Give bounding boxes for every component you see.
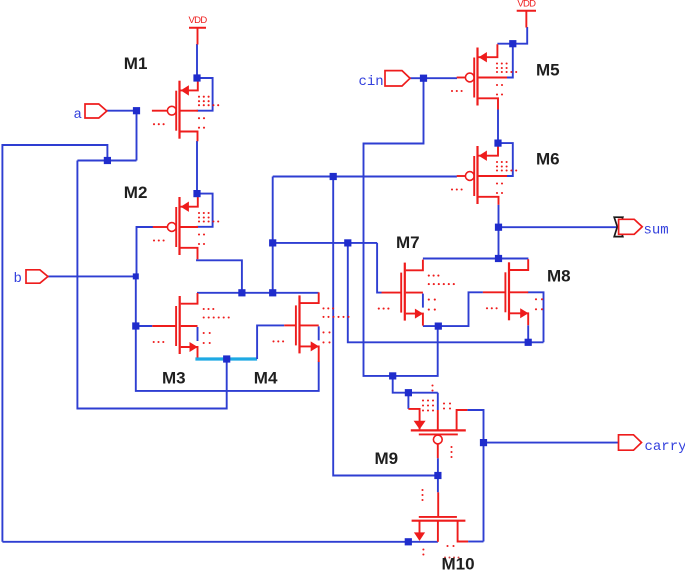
transistor M8 source arrow bbox=[520, 308, 528, 318]
wire M4 gate riser bbox=[257, 325, 284, 359]
transistor M3 source lead bbox=[181, 347, 198, 358]
transistor M7 channel bar bbox=[404, 263, 406, 321]
wire M1 bulk tie loop bbox=[197, 78, 213, 111]
node junction at 347.8,242.9 bbox=[344, 239, 351, 246]
wire M6 source to sum node bbox=[498, 205, 500, 259]
transistor M10 gate lead bbox=[437, 492, 439, 517]
port a symbol bbox=[85, 104, 107, 118]
node junction at 498.5,258.5 bbox=[495, 255, 502, 262]
transistor M8 bulk lead bbox=[510, 291, 528, 293]
node junction at 498,143.1 bbox=[494, 140, 501, 147]
wire M2 gate to node B bbox=[137, 227, 154, 276]
transistor M3 drain lead bbox=[181, 293, 198, 304]
wire M10 drain to carry drop bbox=[468, 541, 483, 543]
transistor M5 parameter dots bbox=[496, 62, 498, 64]
transistor M10 gate bar bbox=[419, 516, 457, 518]
svg-text:a: a bbox=[74, 107, 82, 123]
node junction at 408.4,392.7 bbox=[405, 389, 412, 396]
transistor M7 gate lead bbox=[382, 292, 402, 294]
transistor M5 gate bar bbox=[473, 58, 475, 98]
transistor M4 gate bar bbox=[295, 305, 297, 345]
svg-text:cin: cin bbox=[359, 74, 384, 90]
svg-text:VDD: VDD bbox=[189, 15, 208, 26]
transistor M1 source arrow bbox=[181, 85, 189, 95]
transistor M1 gate lead bbox=[152, 110, 168, 112]
port sum symbol bbox=[619, 219, 643, 234]
transistor M1 source lead bbox=[181, 132, 198, 142]
wire VDD2 to M5 drain rail bbox=[497, 27, 527, 44]
transistor M6 parameter dots bbox=[496, 161, 498, 163]
transistor M3 bulk tie bbox=[197, 327, 199, 341]
node junction at 483.5,442.6 bbox=[480, 439, 487, 446]
wire M1 source to M2 drain bbox=[196, 141, 198, 194]
transistor M1 gate bubble bbox=[167, 106, 176, 115]
transistor M10 source lead bbox=[419, 521, 421, 534]
wire N1 riser to M6 gate rail bbox=[272, 177, 274, 293]
node junction at 333.2,176.5 bbox=[330, 173, 337, 180]
node junction at 498.5,227.2 bbox=[495, 224, 502, 231]
transistor M3 parameter dots bbox=[203, 308, 205, 310]
wire M8 source to rail bbox=[527, 325, 529, 342]
transistor M3 gate bar bbox=[175, 306, 177, 346]
transistor M5 source lead bbox=[479, 98, 499, 109]
transistor M6 gate lead bbox=[457, 175, 466, 177]
node junction at 136.5,110.7 bbox=[133, 107, 140, 114]
transistor M4 bulk lead bbox=[301, 324, 319, 326]
wire M5 source to M6 drain bbox=[497, 110, 499, 144]
svg-text:b: b bbox=[14, 271, 22, 287]
transistor M9 bulk lead bbox=[437, 410, 439, 430]
node junction at 423.5,78.2 bbox=[420, 75, 427, 82]
transistor M9 source lead bbox=[408, 409, 419, 430]
node junction at 135.8,326 bbox=[132, 322, 139, 329]
transistor M10 bulk lead bbox=[437, 521, 439, 542]
wire N1 to M7 gate bbox=[377, 243, 381, 293]
transistor M6 drain lead bbox=[479, 143, 499, 156]
transistor M5 source arrow bbox=[479, 52, 487, 62]
transistor M1 parameter dots bbox=[198, 96, 200, 98]
port b symbol bbox=[26, 270, 48, 283]
transistor M5 channel bar bbox=[476, 48, 478, 106]
transistor M4 source arrow bbox=[311, 341, 319, 351]
transistor M10 parameter dots bbox=[421, 489, 423, 491]
wire sum node to port bbox=[499, 226, 619, 228]
node junction at 272.7,242.9 bbox=[269, 239, 276, 246]
transistor M9 gate lead bbox=[437, 444, 439, 458]
transistor M10 source arrow bbox=[414, 532, 425, 541]
transistor M8 gate bar bbox=[504, 272, 506, 312]
wire a-net horizontal jog bbox=[77, 160, 136, 162]
wire node A down bbox=[136, 111, 138, 161]
wire CIN drop jog to M7 source rail bbox=[364, 78, 438, 376]
transistor M7 parameter dots bbox=[428, 275, 430, 277]
transistor M3 gate lead bbox=[152, 325, 176, 327]
wire M3 gate stub bbox=[136, 325, 153, 327]
svg-text:M7: M7 bbox=[396, 233, 420, 252]
node junction at 392.7,375.9 bbox=[389, 372, 396, 379]
wire M5 bulk tie bbox=[507, 47, 513, 78]
node junction at 241.9,292.8 bbox=[238, 289, 245, 296]
transistor M3 source arrow bbox=[190, 342, 198, 352]
transistor M1 bulk lead bbox=[181, 110, 199, 112]
power symbol VDD2 stem bbox=[525, 11, 527, 28]
wire node N1 top rail bbox=[197, 292, 319, 294]
transistor M6 bulk lead bbox=[479, 175, 508, 177]
transistor M8 parameter dots bbox=[535, 298, 537, 300]
transistor M6 source arrow bbox=[479, 151, 487, 161]
transistor M4 source lead bbox=[301, 346, 319, 362]
svg-text:M3: M3 bbox=[162, 369, 186, 388]
transistor M4 parameter dots bbox=[322, 307, 324, 309]
wire N1 rail to M6 gate bbox=[273, 176, 457, 178]
svg-text:M6: M6 bbox=[536, 150, 560, 169]
transistor M7 gate bar bbox=[400, 273, 402, 313]
transistor M7 drain lead bbox=[406, 260, 423, 271]
power symbol VDD1 stem bbox=[197, 28, 199, 45]
transistor M1 gate bar bbox=[175, 91, 177, 131]
wire a-net drop to cyan node bbox=[77, 161, 226, 409]
power symbol VDD2 bar bbox=[517, 10, 536, 12]
wire M7 source rail to M8 gate bbox=[423, 292, 483, 326]
transistor M5 gate bubble bbox=[465, 73, 474, 82]
transistor M10 channel bar bbox=[412, 520, 466, 522]
transistor M8 drain lead bbox=[510, 259, 528, 270]
port sum bowtie marker bbox=[614, 217, 623, 236]
transistor M4 bulk tie bbox=[318, 326, 320, 340]
node junction at 408.3,541.8 bbox=[405, 538, 412, 545]
svg-text:M4: M4 bbox=[254, 369, 278, 388]
transistor M8 channel bar bbox=[508, 262, 510, 320]
wire N1 mid rail bbox=[273, 242, 377, 244]
wire VDD1 to M1 drain bbox=[196, 44, 198, 78]
node junction at 512.8,43.7 bbox=[509, 40, 516, 47]
svg-text:M1: M1 bbox=[124, 54, 148, 73]
transistor M9 drain lead bbox=[457, 410, 468, 430]
wire M2 source to node N1 top rail bbox=[197, 259, 242, 293]
transistor M5 bulk lead bbox=[479, 77, 508, 79]
node junction at 438.3,326.1 bbox=[435, 323, 442, 330]
transistor M10 drain lead bbox=[458, 521, 469, 542]
transistor M9 parameter dots bbox=[422, 399, 424, 401]
transistor M9 gate bubble bbox=[433, 435, 442, 444]
transistor M4 gate lead bbox=[284, 324, 296, 326]
wire M9 drain to carry node bbox=[467, 410, 483, 542]
wire cyan highlighted segment bbox=[195, 357, 257, 360]
transistor M5 gate lead bbox=[457, 77, 466, 79]
svg-text:M5: M5 bbox=[536, 61, 560, 80]
node junction at 226.7,359 bbox=[223, 355, 230, 362]
transistor M10 tiny text dots bbox=[444, 557, 446, 559]
transistor M2 bulk lead bbox=[181, 226, 199, 228]
node junction at 135.8,276.4 bbox=[133, 273, 139, 279]
wire M7-M8 drain rail bbox=[423, 258, 529, 260]
transistor M2 gate lead bbox=[153, 226, 168, 228]
transistor M2 source arrow bbox=[181, 202, 189, 212]
svg-text:M10: M10 bbox=[442, 555, 475, 571]
wire CIN stair down bbox=[393, 376, 438, 393]
transistor M4 channel bar bbox=[298, 295, 300, 353]
node junction at 272.7,292.8 bbox=[269, 289, 276, 296]
transistor M7 source lead bbox=[406, 314, 423, 326]
wire M9 bulk riser bbox=[437, 393, 439, 410]
transistor M1 channel bar bbox=[178, 81, 180, 139]
svg-text:M2: M2 bbox=[124, 183, 148, 202]
transistor M6 gate bubble bbox=[465, 172, 474, 181]
node junction at 197,193.6 bbox=[193, 190, 200, 197]
wire CIN to M9 source bbox=[407, 393, 409, 409]
wire M9 gate to M10 gate bbox=[437, 458, 439, 492]
transistor M2 gate bar bbox=[175, 207, 177, 247]
transistor M9 source arrow bbox=[414, 421, 426, 430]
transistor M2 gate bubble bbox=[167, 223, 176, 232]
node junction at 197,78 bbox=[193, 74, 200, 81]
svg-text:sum: sum bbox=[644, 223, 669, 239]
transistor M7 bulk tie bbox=[422, 294, 424, 308]
transistor M8 source lead bbox=[510, 313, 528, 325]
wire a port to node A bbox=[107, 110, 137, 112]
wire carry node to port bbox=[484, 442, 619, 444]
transistor M9 gate bar bbox=[419, 433, 458, 435]
wire a-net bottom rail to M10 source bbox=[2, 541, 438, 543]
power symbol VDD1 bar bbox=[189, 27, 206, 29]
wire a-net up and around left side bbox=[2, 145, 107, 542]
wire M6 bulk tie loop bbox=[502, 143, 513, 176]
transistor M8 gate lead bbox=[483, 291, 506, 293]
transistor M6 gate bar bbox=[473, 156, 475, 196]
transistor M1 drain lead bbox=[181, 78, 198, 91]
transistor M7 source arrow bbox=[415, 309, 423, 319]
transistor M4 drain lead bbox=[301, 292, 319, 303]
port carry symbol bbox=[619, 435, 642, 450]
wire N1 drop to M9-M10 gates bbox=[333, 177, 438, 476]
transistor M7 bulk lead bbox=[406, 292, 423, 294]
transistor M3 channel bar bbox=[179, 296, 181, 354]
svg-text:M8: M8 bbox=[547, 267, 571, 286]
transistor M2 source lead bbox=[181, 248, 198, 259]
wire M5 gate stub bbox=[424, 77, 458, 79]
wire M8 bulk tie loop bbox=[528, 292, 544, 342]
svg-text:M9: M9 bbox=[375, 449, 399, 468]
transistor M2 channel bar bbox=[178, 197, 180, 255]
port cin symbol bbox=[385, 71, 410, 86]
transistor M2 drain lead bbox=[181, 194, 198, 207]
transistor M6 source lead bbox=[479, 197, 499, 205]
transistor M3 bulk lead bbox=[181, 325, 198, 327]
wire b port to node B bbox=[48, 275, 136, 277]
transistor M6 channel bar bbox=[476, 146, 478, 204]
transistor M5 drain lead bbox=[479, 44, 498, 57]
wire node B down to M4 source bbox=[136, 276, 319, 391]
svg-text:carry: carry bbox=[645, 439, 685, 455]
wire cin port to node CIN bbox=[410, 77, 424, 79]
svg-text:VDD: VDD bbox=[517, 0, 536, 9]
transistor M9 channel bar bbox=[411, 429, 466, 431]
transistor M2 parameter dots bbox=[198, 212, 200, 214]
wire N1 drop to M8 source rail bbox=[348, 243, 544, 342]
node junction at 107.4,160.5 bbox=[104, 157, 111, 164]
node junction at 528.2,342.3 bbox=[525, 339, 532, 346]
wire M2 bulk tie loop bbox=[197, 194, 213, 227]
node junction at 437.9,475.5 bbox=[434, 472, 441, 479]
